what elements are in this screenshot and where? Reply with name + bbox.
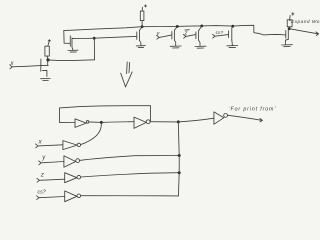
transistor Q2 [64,31,73,50]
node N1 junction [93,37,96,40]
svg-text:z: z [40,173,44,179]
node cs2 input label [38,189,46,195]
wire input x2 to G3 [38,145,63,146]
transistor Q7 [285,29,288,45]
node label For print from [229,106,277,112]
ground Q6 [227,46,238,48]
wire input x to Q1 gate [12,65,48,67]
wire input cs2 to G6 [39,197,65,198]
node A junction [100,121,103,124]
node Q5 drain junction [200,25,203,28]
resistor R2 [140,5,146,27]
inverter G4 [64,156,80,167]
wire output arrow bottom [227,115,262,122]
wire G2 output [150,121,178,123]
wire node A to G2 [101,121,134,124]
resistor R3 [287,13,294,29]
node Q6 drain junction [231,25,234,28]
inverter G5 [65,173,81,183]
node y input label [156,31,161,37]
node label Expand Word [289,19,320,25]
wire Q1 output to riser [48,59,94,62]
wire output Expand Word arrow [289,29,318,36]
wire G4 output to bus [80,156,180,161]
wire input y2 to G4 [41,162,64,163]
svg-text:“Expand Word”: “Expand Word” [289,19,320,25]
svg-text:cs?: cs? [38,189,46,195]
transistor Q3 [137,27,142,46]
wire feedback loop [59,106,150,123]
node Q1 drain junction [46,58,49,61]
inverter G3 [63,141,81,150]
ground Q4 [170,46,181,48]
node bus-y junction [178,154,181,157]
big double arrow [121,62,133,87]
svg-text:‘For print from’: ‘For print from’ [229,106,277,112]
node x2 input label [38,140,43,146]
wire G1 output [89,121,102,124]
wire input z2 to G5 [39,179,64,180]
ground Q5 [195,46,206,48]
ground Q3 [136,46,145,48]
ground Q2 [68,50,78,52]
node R2 drain junction [141,25,144,28]
node z input label [184,30,190,37]
wire input z arrowhead [183,35,186,39]
wire G1 input [60,121,76,123]
wire input y2 arrowhead [39,161,42,165]
inverter G7 [214,112,228,124]
ground Q1 [41,79,51,81]
wire input y arrowhead [157,35,160,39]
transistor Q4 [172,27,177,46]
inverter G6 [65,191,81,202]
wire input z to Q5 gate [186,35,196,37]
ground Q7 [282,45,293,47]
wire riser to node N1 [93,38,95,60]
wire input x2 arrowhead [36,144,39,148]
wire input x arrowhead [10,65,13,69]
node Q7 drain junction [288,27,291,30]
resistor R1 [45,40,51,60]
node bus-z junction [178,171,181,174]
wire G5 output to bus [81,173,180,177]
wire G6 output to bus [81,195,179,197]
wire node B to G7 [178,118,214,122]
node Q4 drain junction [176,25,179,28]
wire bus vertical [177,122,180,196]
wire net N2 (top wire) [64,25,285,35]
wire net N1 (Q2 drain to Q3 gate) [72,36,136,38]
node z2 input label [40,173,44,179]
wire input cs2 arrowhead [37,196,40,200]
wire input y to Q4 gate [159,35,171,38]
wire input cs arrowhead [213,34,216,38]
inverter G1 [75,119,89,128]
node x input label [10,61,15,67]
inverter G2 [134,117,150,128]
transistor Q6 [229,26,233,45]
transistor Q1 [41,59,48,77]
wire input cs to Q6 gate [215,35,228,37]
node y2 input label [41,155,46,161]
wire input z2 arrowhead [37,178,40,182]
wire G3 output to node A [81,124,102,145]
node cs input label [216,30,224,36]
node B junction [177,120,180,123]
transistor Q5 [196,26,202,46]
